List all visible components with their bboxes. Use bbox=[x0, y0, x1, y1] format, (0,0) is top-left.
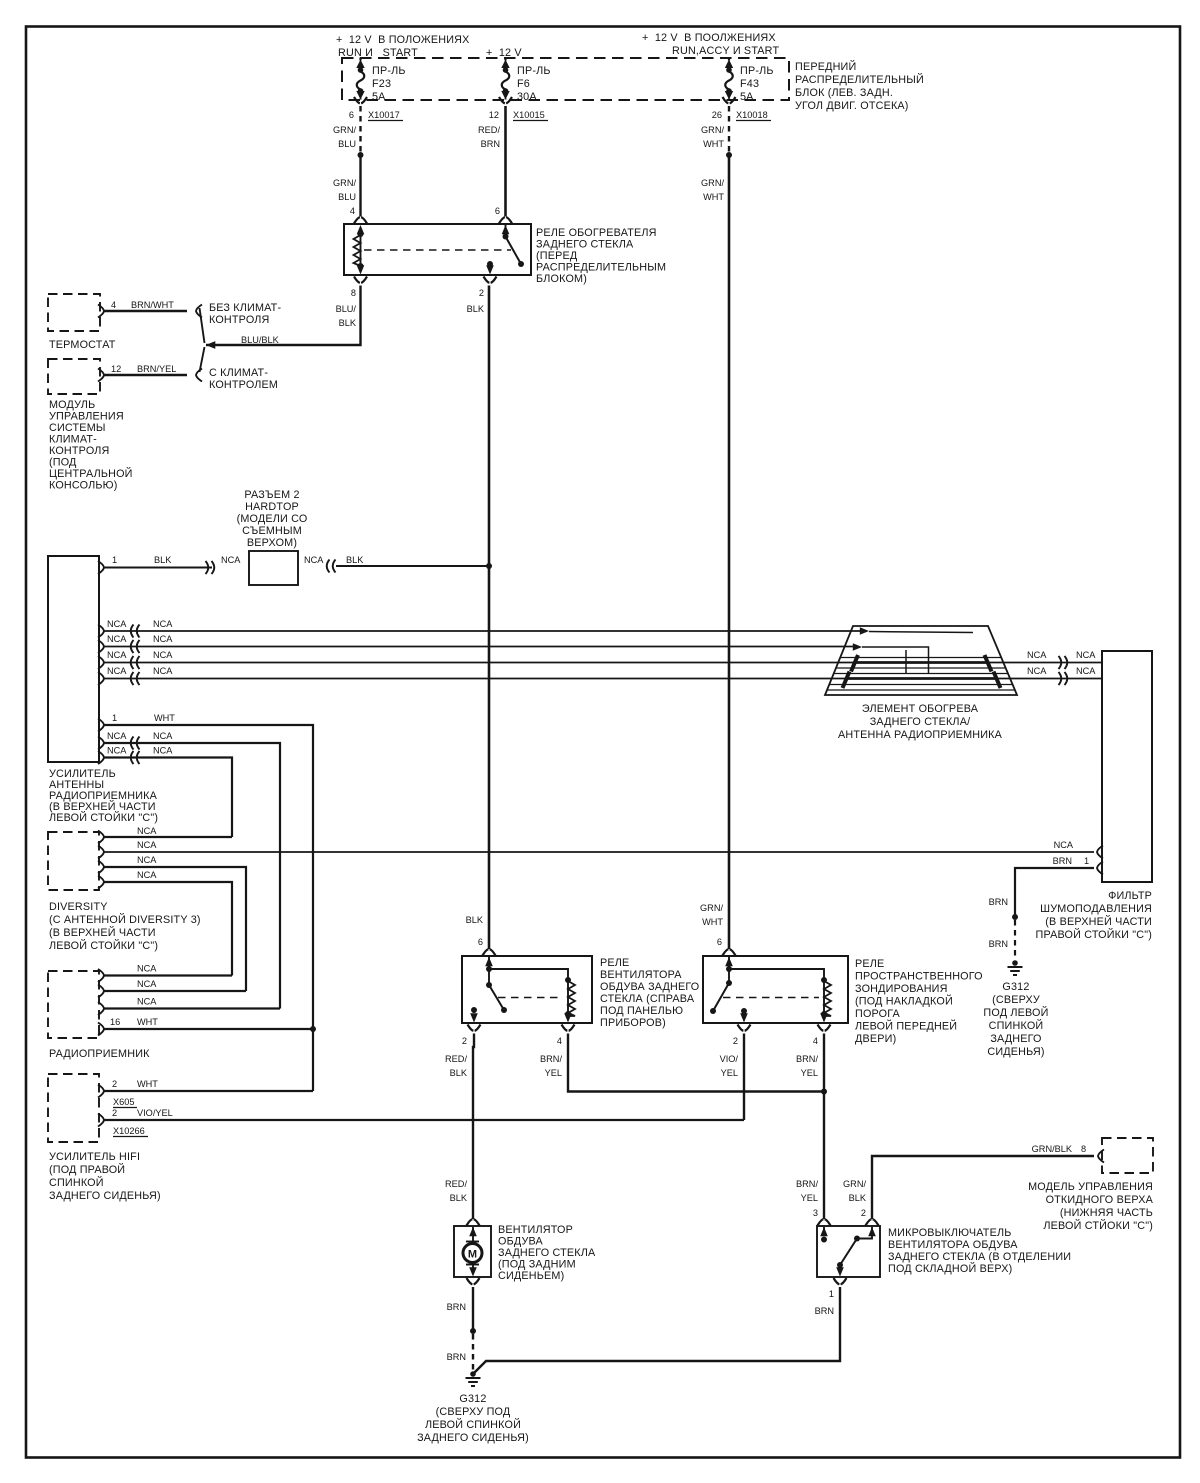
svg-text:BRN/: BRN/ bbox=[796, 1179, 818, 1189]
blower relay K2 switch bbox=[470, 982, 507, 1023]
svg-text:BRN: BRN bbox=[447, 1352, 466, 1362]
fuse F43 5A bbox=[725, 58, 774, 104]
svg-text:КОНТРОЛЯ: КОНТРОЛЯ bbox=[49, 445, 110, 457]
svg-text:2: 2 bbox=[733, 1036, 738, 1046]
relay K1 label bbox=[536, 227, 666, 285]
svg-text:X10266: X10266 bbox=[113, 1126, 145, 1136]
connector X10017 pin 6 bbox=[349, 97, 403, 121]
svg-text:ВЕНТИЛЯТОР: ВЕНТИЛЯТОР bbox=[498, 1224, 573, 1236]
wire GRN/BLU dashed from X10017 bbox=[333, 106, 360, 152]
blower relay K2 actuation dashed link bbox=[498, 997, 563, 999]
diversity NCA row 3 wire down to radio row2 bbox=[98, 855, 246, 991]
svg-text:+ 12 V В ПООЛЖЕНИЯХ: + 12 V В ПООЛЖЕНИЯХ bbox=[642, 32, 776, 44]
svg-text:NCA: NCA bbox=[1076, 650, 1096, 660]
svg-text:RED/: RED/ bbox=[445, 1054, 467, 1064]
svg-text:КОНСОЛЬЮ): КОНСОЛЬЮ) bbox=[49, 480, 118, 492]
blower relay K2 box bbox=[462, 956, 592, 1023]
svg-text:КОНТРОЛЕМ: КОНТРОЛЕМ bbox=[209, 379, 278, 391]
svg-text:МИКРОВЫКЛЮЧАТЕЛЬ: МИКРОВЫКЛЮЧАТЕЛЬ bbox=[888, 1227, 1012, 1239]
amplifier NCA wire row 2 to heater element bbox=[98, 634, 862, 653]
wire GRN/WHT long vertical to space-probe relay pin 6 bbox=[700, 155, 729, 949]
microswitch box bbox=[817, 1226, 880, 1277]
svg-text:СПИНКОЙ: СПИНКОЙ bbox=[989, 1019, 1044, 1032]
heater element grid thin lines bbox=[828, 658, 1015, 691]
svg-text:RUN,ACCY И START: RUN,ACCY И START bbox=[672, 45, 779, 57]
blower relay K2 pin 6 entry bbox=[483, 949, 496, 985]
space relay K3 coil bbox=[729, 969, 831, 1023]
folding top control model box (dashed) bbox=[1102, 1138, 1153, 1173]
svg-text:NCA: NCA bbox=[137, 979, 157, 989]
svg-text:BRN/: BRN/ bbox=[796, 1054, 818, 1064]
svg-text:NCA: NCA bbox=[107, 634, 127, 644]
svg-text:ТЕРМОСТАТ: ТЕРМОСТАТ bbox=[49, 339, 116, 351]
wire GRN/BLK microswitch pin2 to top control model bbox=[843, 1144, 1104, 1219]
radio receiver box (dashed) bbox=[48, 971, 99, 1038]
svg-text:6: 6 bbox=[349, 110, 354, 120]
svg-text:СИСТЕМЫ: СИСТЕМЫ bbox=[49, 422, 106, 434]
svg-text:BRN/WHT: BRN/WHT bbox=[131, 300, 174, 310]
svg-text:BRN/YEL: BRN/YEL bbox=[137, 364, 176, 374]
svg-text:YEL: YEL bbox=[721, 1068, 738, 1078]
svg-text:ЛЕВОЙ СТОЙКИ "C"): ЛЕВОЙ СТОЙКИ "C") bbox=[49, 939, 158, 952]
svg-text:DIVERSITY: DIVERSITY bbox=[49, 901, 108, 913]
svg-text:ЭЛЕМЕНТ ОБОГРЕВА: ЭЛЕМЕНТ ОБОГРЕВА bbox=[862, 703, 979, 715]
svg-text:4: 4 bbox=[111, 300, 116, 310]
svg-text:БЕЗ КЛИМАТ-: БЕЗ КЛИМАТ- bbox=[209, 302, 281, 314]
svg-text:NCA: NCA bbox=[107, 746, 127, 756]
svg-text:F23: F23 bbox=[372, 78, 391, 90]
svg-text:ПР-ЛЬ: ПР-ЛЬ bbox=[517, 65, 551, 77]
diversity NCA row 1 wire bbox=[98, 826, 232, 844]
amplifier NCA wire row 3 through heater element to filter bbox=[98, 650, 857, 669]
svg-text:БЛОК (ЛЕВ. ЗАДН.: БЛОК (ЛЕВ. ЗАДН. bbox=[795, 87, 893, 99]
space relay K3 switch bbox=[710, 980, 748, 1023]
svg-text:WHT: WHT bbox=[703, 192, 724, 202]
blower motor label bbox=[498, 1224, 596, 1282]
diversity NCA row 4 wire down to radio row1 bbox=[98, 870, 232, 976]
wire BLK hardtop to BLK vertical junction bbox=[304, 555, 489, 573]
front power distribution box (dashed) bbox=[342, 58, 789, 100]
svg-text:ЛЕВОЙ ПЕРЕДНЕЙ: ЛЕВОЙ ПЕРЕДНЕЙ bbox=[855, 1020, 957, 1033]
climate control module box (dashed) bbox=[48, 359, 100, 394]
svg-text:BRN: BRN bbox=[989, 897, 1008, 907]
svg-text:1: 1 bbox=[112, 555, 117, 565]
svg-text:ЗАДНЕГО СТЕКЛА/: ЗАДНЕГО СТЕКЛА/ bbox=[870, 716, 971, 728]
svg-text:RED/: RED/ bbox=[478, 125, 500, 135]
svg-text:NCA: NCA bbox=[153, 746, 173, 756]
wire NCA heater row3 to filter bbox=[986, 650, 1102, 669]
svg-text:1: 1 bbox=[829, 1289, 834, 1299]
ground G312 right symbol bbox=[1008, 960, 1023, 975]
svg-text:X605: X605 bbox=[113, 1097, 134, 1107]
connector X10018 pin 26 bbox=[712, 97, 771, 121]
svg-text:BLU/: BLU/ bbox=[336, 304, 357, 314]
radio NCA row 2 wire bbox=[98, 979, 246, 998]
svg-text:1: 1 bbox=[1084, 856, 1089, 866]
wire BRN microswitch pin1 to ground run bbox=[475, 1287, 841, 1373]
svg-text:КОНТРОЛЯ: КОНТРОЛЯ bbox=[209, 314, 270, 326]
svg-text:(В ВЕРХНЕЙ ЧАСТИ: (В ВЕРХНЕЙ ЧАСТИ bbox=[1045, 915, 1152, 928]
svg-text:NCA: NCA bbox=[137, 964, 157, 974]
svg-text:ПРОСТРАНСТВЕННОГО: ПРОСТРАНСТВЕННОГО bbox=[855, 971, 983, 983]
svg-text:ЗАДНЕГО СТЕКЛА: ЗАДНЕГО СТЕКЛА bbox=[498, 1247, 596, 1259]
svg-text:(В ВЕРХНЕЙ ЧАСТИ: (В ВЕРХНЕЙ ЧАСТИ bbox=[49, 926, 156, 939]
blower motor symbol bbox=[463, 1219, 482, 1284]
blower motor box bbox=[454, 1226, 491, 1277]
thermostat box (dashed) bbox=[48, 294, 100, 331]
heater element bus row4 (thick) bbox=[843, 672, 1001, 689]
diversity box (dashed) bbox=[48, 832, 99, 890]
climate module pin 12 wire BRN/YEL bbox=[98, 364, 187, 382]
svg-text:NCA: NCA bbox=[1076, 666, 1096, 676]
svg-text:GRN/: GRN/ bbox=[333, 125, 356, 135]
wire BLK antenna amp pin1 to hardtop bbox=[98, 555, 241, 574]
svg-text:РЕЛЕ: РЕЛЕ bbox=[600, 957, 629, 969]
svg-text:ОБДУВА: ОБДУВА bbox=[498, 1236, 544, 1248]
space relay K3 pin 6 entry bbox=[723, 949, 736, 983]
radio antenna amplifier label bbox=[49, 768, 158, 824]
svg-text:X10018: X10018 bbox=[736, 110, 768, 120]
svg-text:BLK: BLK bbox=[450, 1068, 468, 1078]
svg-text:ЗАДНЕГО: ЗАДНЕГО bbox=[990, 1033, 1041, 1045]
svg-text:WHT: WHT bbox=[137, 1017, 158, 1027]
svg-text:РАСПРЕДЕЛИТЕЛЬНЫМ: РАСПРЕДЕЛИТЕЛЬНЫМ bbox=[536, 262, 666, 274]
svg-text:BLU/BLK: BLU/BLK bbox=[241, 335, 280, 345]
svg-text:BLK: BLK bbox=[467, 304, 485, 314]
svg-text:2: 2 bbox=[112, 1079, 117, 1089]
svg-text:ЗАДНЕГО СИДЕНЬЯ): ЗАДНЕГО СИДЕНЬЯ) bbox=[49, 1190, 161, 1202]
svg-text:4: 4 bbox=[813, 1036, 818, 1046]
svg-text:ЦЕНТРАЛЬНОЙ: ЦЕНТРАЛЬНОЙ bbox=[49, 467, 133, 480]
svg-text:ПР-ЛЬ: ПР-ЛЬ bbox=[372, 65, 406, 77]
svg-text:(МОДЕЛИ СО: (МОДЕЛИ СО bbox=[237, 513, 308, 525]
radio antenna amplifier box bbox=[48, 556, 99, 762]
amplifier pin 1 WHT wire bbox=[98, 713, 313, 1091]
svg-text:МОДУЛЬ: МОДУЛЬ bbox=[49, 399, 95, 411]
svg-text:(СВЕРХУ: (СВЕРХУ bbox=[992, 994, 1040, 1006]
HIFI pin 2 WHT wire connector X605 bbox=[98, 1079, 313, 1108]
svg-text:GRN/BLK: GRN/BLK bbox=[1032, 1144, 1073, 1154]
svg-text:GRN/: GRN/ bbox=[701, 125, 724, 135]
svg-text:ВЕНТИЛЯТОРА: ВЕНТИЛЯТОРА bbox=[600, 969, 682, 981]
svg-text:NCA: NCA bbox=[153, 650, 173, 660]
wire BRN/YEL relay K2 pin4 jog to junction bbox=[540, 1034, 824, 1092]
relay K1 pin 4 entry bbox=[354, 217, 367, 234]
svg-text:NCA: NCA bbox=[107, 731, 127, 741]
svg-text:NCA: NCA bbox=[153, 731, 173, 741]
front power distribution box label bbox=[795, 60, 924, 112]
relay K1 coil bbox=[354, 231, 365, 275]
svg-text:РАСПРЕДЕЛИТЕЛЬНЫЙ: РАСПРЕДЕЛИТЕЛЬНЫЙ bbox=[795, 73, 924, 86]
svg-text:BRN: BRN bbox=[481, 139, 500, 149]
svg-text:G312: G312 bbox=[1002, 981, 1029, 993]
svg-text:8: 8 bbox=[351, 288, 356, 298]
svg-text:ПОД ПАНЕЛЬЮ: ПОД ПАНЕЛЬЮ bbox=[600, 1005, 683, 1017]
heater element inner trace row2 with drops bbox=[862, 647, 929, 674]
blower relay K2 label bbox=[600, 957, 699, 1029]
svg-text:NCA: NCA bbox=[221, 555, 241, 565]
svg-text:ПРИБОРОВ): ПРИБОРОВ) bbox=[600, 1017, 666, 1029]
svg-text:BLK: BLK bbox=[450, 1193, 468, 1203]
svg-text:BRN: BRN bbox=[1053, 856, 1072, 866]
svg-text:РАДИОПРИЕМНИК: РАДИОПРИЕМНИК bbox=[49, 1048, 150, 1060]
svg-text:ФИЛЬТР: ФИЛЬТР bbox=[1108, 890, 1152, 902]
svg-text:BLK: BLK bbox=[339, 318, 357, 328]
svg-text:NCA: NCA bbox=[107, 650, 127, 660]
svg-text:GRN/: GRN/ bbox=[333, 178, 356, 188]
svg-text:2: 2 bbox=[861, 1208, 866, 1218]
svg-text:2: 2 bbox=[462, 1036, 467, 1046]
svg-text:NCA: NCA bbox=[137, 870, 157, 880]
svg-text:ПЕРЕДНИЙ: ПЕРЕДНИЙ bbox=[795, 60, 856, 73]
svg-text:NCA: NCA bbox=[1054, 840, 1074, 850]
svg-text:С КЛИМАТ-: С КЛИМАТ- bbox=[209, 367, 268, 379]
wire NCA heater row4 to filter bbox=[996, 666, 1102, 685]
relay K1 pin 2 exit bbox=[479, 277, 497, 299]
wire BRN blower motor to ground bbox=[447, 1287, 473, 1331]
space relay K3 pin 2 exit bbox=[733, 1025, 751, 1047]
thermostat pin 4 wire BRN/WHT bbox=[98, 300, 187, 318]
diversity NCA row 2 long wire to filter bbox=[98, 840, 1094, 859]
rear window heater element / antenna: trapezoid outline bbox=[825, 626, 1017, 695]
svg-text:РАЗЪЕМ 2: РАЗЪЕМ 2 bbox=[244, 489, 299, 501]
wire RED/BRN from X10015 to relay pin 6 bbox=[478, 106, 505, 217]
wire BLU/BLK from relay K1 pin 8 bbox=[206, 286, 361, 349]
radio NCA row 3 wire bbox=[98, 997, 280, 1016]
space probing relay K3 label bbox=[855, 958, 983, 1045]
svg-text:(ПОД: (ПОД bbox=[49, 457, 77, 469]
blower relay K2 pin 2 exit bbox=[462, 1025, 481, 1047]
ground G312 bottom symbol bbox=[466, 1371, 481, 1386]
svg-text:ЗАДНЕГО СИДЕНЬЯ): ЗАДНЕГО СИДЕНЬЯ) bbox=[417, 1432, 529, 1444]
blower relay K2 coil bbox=[489, 969, 575, 1023]
amplifier NCA wire row 4 through heater element to filter bbox=[98, 666, 848, 685]
svg-text:(СВЕРХУ ПОД: (СВЕРХУ ПОД bbox=[436, 1406, 511, 1418]
svg-text:СИДЕНЬЯ): СИДЕНЬЯ) bbox=[987, 1046, 1044, 1058]
svg-text:РЕЛЕ ОБОГРЕВАТЕЛЯ: РЕЛЕ ОБОГРЕВАТЕЛЯ bbox=[536, 227, 657, 239]
svg-text:WHT: WHT bbox=[703, 139, 724, 149]
svg-text:GRN/: GRN/ bbox=[843, 1179, 866, 1189]
wire BRN dashed to ground G312 bottom bbox=[447, 1334, 473, 1371]
svg-text:(ПОД ПРАВОЙ: (ПОД ПРАВОЙ bbox=[49, 1163, 125, 1176]
relay K1 actuation dashed link bbox=[364, 249, 511, 251]
svg-text:BRN/: BRN/ bbox=[540, 1054, 562, 1064]
svg-text:HARDTOP: HARDTOP bbox=[245, 501, 299, 513]
blower relay K2 pin 4 exit bbox=[557, 1025, 575, 1047]
amplifier NCA wire row 1 to heater element bbox=[98, 619, 869, 638]
svg-text:ВЕРХОМ): ВЕРХОМ) bbox=[247, 537, 297, 549]
option branch with climate control label bbox=[209, 367, 278, 391]
svg-text:ЛЕВОЙ СТОЙКИ "C"): ЛЕВОЙ СТОЙКИ "C") bbox=[49, 811, 158, 824]
relay K1 rear window defogger: box bbox=[344, 224, 531, 275]
svg-text:РЕЛЕ: РЕЛЕ bbox=[855, 958, 884, 970]
svg-text:(ПОД ЗАДНИМ: (ПОД ЗАДНИМ bbox=[498, 1259, 576, 1271]
svg-text:5A: 5A bbox=[372, 91, 386, 103]
svg-text:ЛЕВОЙ СПИНКОЙ: ЛЕВОЙ СПИНКОЙ bbox=[425, 1418, 521, 1431]
svg-text:NCA: NCA bbox=[137, 997, 157, 1007]
relay K1 pin 8 exit bbox=[351, 277, 367, 299]
svg-text:BRN: BRN bbox=[447, 1302, 466, 1312]
node +12V RUN,ACCY,START supply label bbox=[642, 32, 779, 57]
ground G312 right label bbox=[983, 981, 1048, 1058]
noise suppression filter box bbox=[1102, 651, 1152, 882]
svg-text:M: M bbox=[468, 1249, 477, 1261]
relay K1 switch pin6 to pin2 bbox=[486, 217, 524, 274]
amplifier NCA row 6 down to diversity row1 bbox=[98, 746, 232, 838]
junction BRN motor ground bbox=[470, 1328, 476, 1334]
svg-text:8: 8 bbox=[1081, 1144, 1086, 1154]
svg-text:NCA: NCA bbox=[304, 555, 324, 565]
noise suppression filter label bbox=[1036, 890, 1153, 941]
svg-text:2: 2 bbox=[112, 1108, 117, 1118]
connector X10015 pin 12 bbox=[489, 97, 548, 121]
svg-text:WHT: WHT bbox=[154, 713, 175, 723]
microswitch pin 3 entry bbox=[818, 1219, 831, 1242]
svg-text:СТЕКЛА (СПРАВА: СТЕКЛА (СПРАВА bbox=[600, 993, 695, 1005]
filter NCA input row (from diversity row2) bbox=[1054, 840, 1103, 859]
svg-text:6: 6 bbox=[478, 937, 483, 947]
junction BRN/YEL bbox=[821, 1089, 827, 1095]
svg-text:VIO/: VIO/ bbox=[720, 1054, 739, 1064]
svg-text:NCA: NCA bbox=[1027, 666, 1047, 676]
option branch without climate control label bbox=[209, 302, 281, 326]
amplifier NCA row 5 down to radio row3 bbox=[98, 731, 280, 1009]
svg-text:ОТКИДНОГО ВЕРХА: ОТКИДНОГО ВЕРХА bbox=[1046, 1194, 1154, 1206]
svg-text:BLK: BLK bbox=[346, 555, 364, 565]
hardtop connector 2 label bbox=[237, 489, 308, 549]
svg-text:1: 1 bbox=[112, 713, 117, 723]
svg-text:АНТЕННА РАДИОПРИЕМНИКА: АНТЕННА РАДИОПРИЕМНИКА bbox=[838, 729, 1003, 741]
wire GRN/BLU to relay pin 4 bbox=[333, 155, 360, 217]
svg-text:БЛОКОМ): БЛОКОМ) bbox=[536, 273, 587, 285]
fuse F23 5A bbox=[356, 58, 405, 104]
svg-text:УГОЛ ДВИГ. ОТСЕКА): УГОЛ ДВИГ. ОТСЕКА) bbox=[795, 100, 909, 112]
svg-text:BRN: BRN bbox=[815, 1306, 834, 1316]
HIFI pin 2 VIO/YEL wire connector X10266 bbox=[98, 1108, 744, 1137]
svg-text:BLU: BLU bbox=[338, 192, 356, 202]
space relay K3 actuation dashed link bbox=[723, 997, 819, 999]
microswitch pin 1 exit bbox=[829, 1278, 847, 1299]
junction WHT x radio pin16 bbox=[310, 1026, 316, 1032]
svg-text:УПРАВЛЕНИЯ: УПРАВЛЕНИЯ bbox=[49, 411, 124, 423]
svg-text:NCA: NCA bbox=[107, 666, 127, 676]
svg-text:F43: F43 bbox=[740, 78, 759, 90]
microswitch label bbox=[888, 1227, 1071, 1275]
folding top control model label bbox=[1028, 1181, 1154, 1232]
svg-text:NCA: NCA bbox=[137, 840, 157, 850]
wire VIO/YEL relay K3 pin2 to HIFI X10266 bbox=[720, 1034, 744, 1121]
svg-text:VIO/YEL: VIO/YEL bbox=[137, 1108, 173, 1118]
svg-text:4: 4 bbox=[350, 206, 355, 216]
svg-text:2: 2 bbox=[479, 288, 484, 298]
svg-text:WHT: WHT bbox=[137, 1079, 158, 1089]
svg-text:ШУМОПОДАВЛЕНИЯ: ШУМОПОДАВЛЕНИЯ bbox=[1040, 903, 1152, 915]
svg-text:(ПОД НАКЛАДКОЙ: (ПОД НАКЛАДКОЙ bbox=[855, 995, 953, 1008]
junction GRN/WHT bbox=[726, 152, 732, 158]
svg-text:ПОРОГА: ПОРОГА bbox=[855, 1008, 901, 1020]
svg-text:YEL: YEL bbox=[545, 1068, 562, 1078]
junction BLK x hardtop connector row bbox=[486, 563, 492, 569]
node +12V RUN/START supply label bbox=[336, 34, 470, 59]
svg-text:NCA: NCA bbox=[137, 855, 157, 865]
heater element bus row3 (thick) bbox=[851, 655, 992, 672]
diversity label bbox=[49, 901, 201, 952]
svg-text:RED/: RED/ bbox=[445, 1179, 467, 1189]
svg-text:5A: 5A bbox=[740, 91, 754, 103]
wire RED/BLK relay K2 pin2 to blower motor bbox=[445, 1034, 474, 1220]
filter BRN pin 1 wire to ground bbox=[989, 856, 1103, 917]
heater element label bbox=[838, 703, 1003, 741]
space relay K3 pin 4 exit bbox=[813, 1025, 831, 1047]
svg-text:ЗАДНЕГО СТЕКЛА: ЗАДНЕГО СТЕКЛА bbox=[536, 239, 634, 251]
junction GRN/BLU bbox=[358, 152, 364, 158]
svg-text:GRN/: GRN/ bbox=[700, 903, 723, 913]
svg-text:X10017: X10017 bbox=[368, 110, 400, 120]
junction BRN filter ground bbox=[1012, 914, 1018, 920]
svg-text:4: 4 bbox=[557, 1036, 562, 1046]
HIFI amplifier label bbox=[49, 1151, 161, 1202]
wire BRN/YEL relay K3 pin4 down to microswitch bbox=[796, 1034, 824, 1220]
svg-text:NCA: NCA bbox=[153, 634, 173, 644]
svg-text:F6: F6 bbox=[517, 78, 530, 90]
svg-text:+ 12 V В ПОЛОЖЕНИЯХ: + 12 V В ПОЛОЖЕНИЯХ bbox=[336, 34, 470, 46]
svg-text:СИДЕНЬЕМ): СИДЕНЬЕМ) bbox=[498, 1270, 564, 1282]
svg-text:YEL: YEL bbox=[801, 1193, 818, 1203]
svg-text:16: 16 bbox=[110, 1017, 120, 1027]
space probing relay K3 box bbox=[703, 956, 848, 1023]
radio NCA row 1 wire bbox=[98, 964, 232, 983]
wire GRN/WHT dashed from X10018 bbox=[701, 106, 729, 152]
svg-text:NCA: NCA bbox=[153, 619, 173, 629]
svg-text:КЛИМАТ-: КЛИМАТ- bbox=[49, 434, 97, 446]
svg-text:ДВЕРИ): ДВЕРИ) bbox=[855, 1033, 896, 1045]
svg-text:(С АНТЕННОЙ DIVERSITY 3): (С АНТЕННОЙ DIVERSITY 3) bbox=[49, 913, 201, 926]
svg-text:СПИНКОЙ: СПИНКОЙ bbox=[49, 1176, 104, 1189]
svg-text:6: 6 bbox=[717, 937, 722, 947]
svg-text:СЪЕМНЫМ: СЪЕМНЫМ bbox=[242, 525, 302, 537]
HIFI amplifier box (dashed) bbox=[48, 1074, 99, 1142]
fuse F6 30A bbox=[501, 58, 550, 104]
svg-text:BLK: BLK bbox=[466, 915, 484, 925]
wire BRN dashed to ground G312 right bbox=[989, 920, 1015, 960]
svg-text:6: 6 bbox=[495, 206, 500, 216]
svg-text:ПОД ЛЕВОЙ: ПОД ЛЕВОЙ bbox=[983, 1006, 1048, 1019]
svg-text:ЗОНДИРОВАНИЯ: ЗОНДИРОВАНИЯ bbox=[855, 983, 948, 995]
svg-text:GRN/: GRN/ bbox=[701, 178, 724, 188]
svg-text:12: 12 bbox=[489, 110, 499, 120]
hardtop connector 2 box bbox=[249, 551, 298, 585]
svg-text:YEL: YEL bbox=[801, 1068, 818, 1078]
microswitch pin 2 entry and contacts bbox=[836, 1219, 878, 1276]
wire BLK from relay K1 pin 2 (long vertical) bbox=[466, 286, 489, 950]
svg-text:NCA: NCA bbox=[153, 666, 173, 676]
option merge node bbox=[196, 305, 215, 382]
svg-text:12: 12 bbox=[111, 364, 121, 374]
svg-text:ПР-ЛЬ: ПР-ЛЬ bbox=[740, 65, 774, 77]
svg-text:BLK: BLK bbox=[849, 1193, 867, 1203]
svg-text:3: 3 bbox=[813, 1208, 818, 1218]
svg-text:G312: G312 bbox=[459, 1393, 486, 1405]
svg-text:NCA: NCA bbox=[1027, 650, 1047, 660]
svg-text:ОБДУВА ЗАДНЕГО: ОБДУВА ЗАДНЕГО bbox=[600, 981, 699, 993]
svg-text:(НИЖНЯЯ ЧАСТЬ: (НИЖНЯЯ ЧАСТЬ bbox=[1060, 1207, 1153, 1219]
svg-text:26: 26 bbox=[712, 110, 722, 120]
svg-text:BRN: BRN bbox=[989, 939, 1008, 949]
radio pin 16 WHT wire bbox=[98, 1017, 313, 1036]
svg-text:WHT: WHT bbox=[702, 917, 723, 927]
svg-text:X10015: X10015 bbox=[513, 110, 545, 120]
svg-text:МОДЕЛЬ УПРАВЛЕНИЯ: МОДЕЛЬ УПРАВЛЕНИЯ bbox=[1028, 1181, 1153, 1193]
